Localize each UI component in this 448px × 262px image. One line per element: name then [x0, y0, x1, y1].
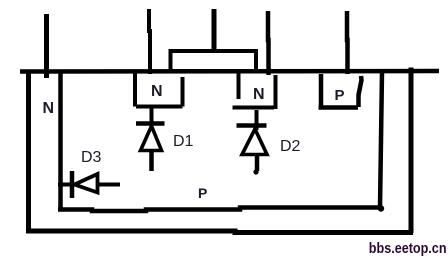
diode D3 [58, 171, 120, 198]
svg-text:P: P [198, 185, 207, 201]
gate electrode plate [171, 51, 257, 71]
wire: terminal lead 2 (above left N+ region) [149, 9, 150, 74]
P+ diffusion box [319, 74, 362, 108]
diode D1 [136, 107, 165, 171]
wire: terminal lead 1 (leftmost, substrate N contact) [44, 14, 49, 78]
svg-text:D1: D1 [173, 133, 194, 150]
svg-text:N: N [43, 100, 55, 117]
left N+ diffusion box [135, 72, 183, 107]
diode D2 [237, 110, 268, 175]
svg-text:P: P [335, 87, 345, 104]
P-well inner box [58, 72, 382, 211]
wire: terminal lead 4 (above right N+ region) [266, 11, 271, 75]
wire: terminal lead 5 (above P+ region) [345, 11, 350, 74]
svg-text:D3: D3 [81, 149, 102, 166]
junction dot: P-well bottom-right corner [378, 205, 384, 211]
svg-text:N: N [253, 86, 265, 103]
svg-text:N: N [151, 83, 163, 100]
right N+ diffusion box [233, 73, 276, 109]
wire: top surface line [20, 69, 439, 74]
watermark bbs.eetop.cn [369, 240, 447, 257]
svg-text:D2: D2 [280, 138, 301, 155]
substrate outer box [26, 68, 413, 234]
wire: terminal lead 3 (gate electrode lead) [212, 9, 217, 51]
